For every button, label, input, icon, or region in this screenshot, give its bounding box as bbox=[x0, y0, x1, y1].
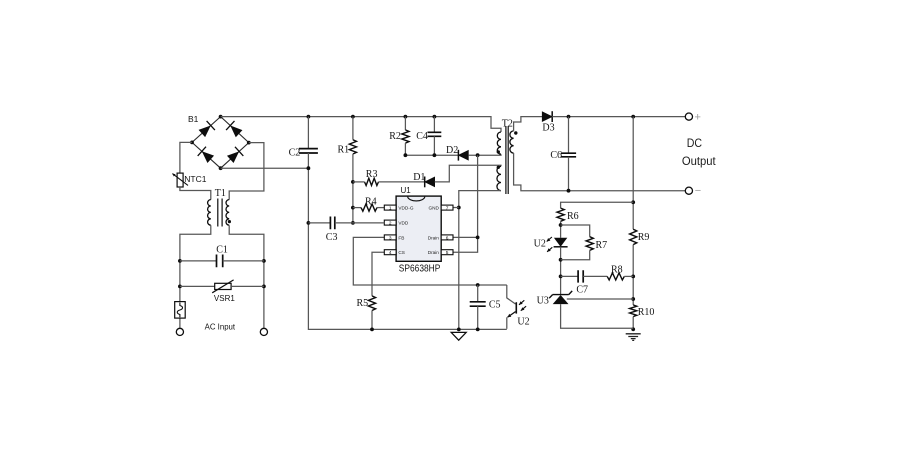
wire drain node down to U1 pins 6 and 5 bbox=[453, 155, 477, 252]
svg-text:D2: D2 bbox=[446, 145, 458, 156]
junction C1 right bbox=[262, 259, 266, 263]
varistor VSR1 bbox=[215, 283, 231, 289]
resistor R8 bbox=[607, 273, 624, 280]
svg-text:R6: R6 bbox=[567, 211, 579, 222]
optocoupler U2 light arrow 2 bbox=[521, 306, 526, 311]
capacitor C5 bbox=[470, 302, 486, 306]
junction C3 right / VDD pin2 bbox=[351, 221, 355, 225]
ground (earth) secondary bbox=[626, 334, 641, 341]
resistor R6 bbox=[557, 208, 564, 221]
svg-text:Drain: Drain bbox=[428, 250, 440, 255]
wire D2 anode to T2 primary bottom bbox=[468, 154, 501, 155]
junction + sense branch bbox=[631, 115, 635, 119]
svg-text:C5: C5 bbox=[489, 299, 501, 310]
fuse F1 bbox=[175, 302, 186, 319]
wire T2 aux bottom to GND net bbox=[459, 191, 501, 330]
wire C3 left lead bbox=[308, 222, 330, 224]
op-amp U1 body (controller SP6638HP) bbox=[396, 196, 441, 261]
wire T2 secondary top to D3 bbox=[514, 117, 543, 131]
wire R2 top lead bbox=[404, 117, 406, 130]
junction C4 top bbox=[433, 115, 437, 119]
junction C7 left / U3 cathode bbox=[559, 275, 563, 279]
junction R7 bottom / LED cathode bbox=[559, 258, 563, 262]
svg-text:T1: T1 bbox=[215, 188, 226, 199]
wire D1 anode to T2 aux winding top bbox=[435, 165, 501, 182]
node bridge left vertex (AC) bbox=[190, 141, 194, 145]
resistor R9 bbox=[630, 229, 637, 244]
wire T1 left winding bottom to AC-L branch bbox=[180, 225, 211, 328]
capacitor C1 bbox=[217, 255, 223, 268]
svg-text:4: 4 bbox=[389, 250, 392, 256]
resistor R3 bbox=[365, 178, 379, 185]
pin 4 box bbox=[384, 250, 396, 255]
node bridge bottom vertex (DC-) bbox=[219, 166, 223, 170]
junction GND net at bottom rail bbox=[457, 328, 461, 332]
wire FB net from pin3 to opto collector bbox=[353, 237, 507, 285]
svg-text:+: + bbox=[695, 111, 701, 123]
pin 5 box bbox=[441, 250, 453, 255]
capacitor C6 bbox=[561, 153, 576, 157]
junction VSR1 right bbox=[262, 285, 266, 289]
wire R1 bottom lead down VDD node bbox=[352, 154, 354, 223]
svg-text:R8: R8 bbox=[611, 265, 623, 276]
wire C6 top lead bbox=[568, 117, 570, 154]
svg-text:1: 1 bbox=[389, 206, 392, 212]
pin 3 box bbox=[384, 235, 396, 240]
wire T2 secondary bottom to - output bbox=[514, 153, 686, 191]
junction C6 top bbox=[567, 115, 571, 119]
svg-text:Drain: Drain bbox=[428, 235, 440, 240]
resistor R2 bbox=[402, 130, 409, 143]
svg-text:R4: R4 bbox=[365, 197, 377, 208]
optocoupler U2 phototransistor bbox=[507, 285, 516, 304]
terminal + output bbox=[685, 113, 692, 120]
wire T1 right winding bottom to AC-N branch bbox=[229, 225, 264, 328]
capacitor C4 bbox=[428, 132, 442, 136]
junction VSR1 left bbox=[178, 285, 182, 289]
wire bridge left vertex to NTC1 bbox=[180, 142, 192, 173]
svg-text:Output: Output bbox=[682, 156, 717, 168]
junction R2 bottom bbox=[404, 153, 408, 157]
wire bridge bottom vertex to C2 bottom bbox=[221, 167, 309, 169]
optocoupler U2 light arrow 1 bbox=[519, 300, 524, 305]
wire + sense vertical to R9 bbox=[632, 117, 634, 230]
wire R1 top lead bbox=[352, 117, 354, 140]
svg-text:7: 7 bbox=[446, 206, 449, 212]
svg-text:U1: U1 bbox=[401, 186, 412, 195]
transformer T1 core bbox=[218, 199, 222, 227]
svg-text:R10: R10 bbox=[638, 307, 655, 318]
polarity dot T2 aux winding (top end) bbox=[497, 166, 500, 169]
svg-text:DC: DC bbox=[687, 138, 702, 150]
junction R7 top bbox=[559, 223, 563, 227]
svg-text:−: − bbox=[695, 185, 701, 197]
wire top DC+ rail from bridge to T2 primary bbox=[221, 117, 501, 132]
svg-text:5: 5 bbox=[446, 250, 449, 256]
optocoupler U2 emitter arrow bbox=[508, 312, 516, 318]
wire D3 cathode to + output bbox=[552, 116, 685, 118]
svg-text:R7: R7 bbox=[596, 240, 608, 251]
transformer T2 primary upper winding bbox=[497, 132, 501, 154]
svg-text:R2: R2 bbox=[389, 131, 401, 142]
svg-text:R3: R3 bbox=[366, 169, 378, 180]
junction C1 left bbox=[178, 259, 182, 263]
svg-text:FB: FB bbox=[398, 235, 404, 240]
pin 2 box bbox=[384, 220, 396, 225]
svg-text:2: 2 bbox=[389, 221, 392, 227]
junction U3 ref / divider tap bbox=[631, 297, 635, 301]
junction GND at pin7 bbox=[457, 206, 461, 210]
pin 7 box bbox=[441, 205, 453, 210]
junction R6 branch bbox=[631, 200, 635, 204]
junction C2 top bbox=[307, 115, 311, 119]
wire C7 to R8 bbox=[583, 275, 607, 277]
wire R2 bottom lead bbox=[404, 143, 406, 155]
svg-text:C3: C3 bbox=[326, 232, 338, 243]
wire R4 left lead bbox=[353, 207, 361, 209]
optocoupler U2 LED emission arrow 2 bbox=[547, 247, 552, 252]
transformer T2 secondary winding bbox=[510, 131, 514, 153]
junction R8 right bbox=[631, 275, 635, 279]
junction R5 bottom on rail bbox=[370, 328, 374, 332]
junction secondary ground bbox=[631, 327, 635, 331]
pin 6 box bbox=[441, 235, 453, 240]
terminal - output bbox=[685, 187, 692, 194]
svg-text:U2: U2 bbox=[517, 317, 529, 328]
shunt regulator U3 (TL431) bbox=[549, 291, 572, 298]
svg-text:C6: C6 bbox=[550, 150, 562, 161]
svg-text:U2: U2 bbox=[534, 238, 546, 249]
svg-text:CS: CS bbox=[398, 250, 405, 255]
svg-text:VDD-G: VDD-G bbox=[398, 206, 413, 211]
wire VDD pin2 stub bbox=[353, 222, 384, 224]
wire C6 bottom lead bbox=[568, 157, 570, 191]
svg-text:AC Input: AC Input bbox=[205, 322, 236, 331]
junction C2 bottom / bridge return bbox=[307, 166, 311, 170]
wire C2 top lead bbox=[307, 117, 309, 149]
junction R1 top bbox=[351, 115, 355, 119]
terminal AC input right bbox=[260, 328, 267, 335]
resistor R7 bbox=[586, 237, 593, 251]
capacitor C7 bbox=[578, 270, 583, 282]
junction R4 branch bbox=[351, 206, 355, 210]
resistor R4 bbox=[361, 204, 377, 211]
svg-text:R5: R5 bbox=[357, 298, 369, 309]
wire + sense to R6 top bbox=[561, 202, 634, 208]
wire R7 branch bottom bbox=[561, 250, 590, 259]
junction pin6 drain bbox=[476, 236, 480, 240]
transformer T1 right winding bbox=[226, 200, 229, 226]
svg-text:C7: C7 bbox=[576, 285, 588, 296]
bridge diode upper-right (conducts R to T) bbox=[226, 121, 243, 138]
wire C4 bottom lead bbox=[433, 136, 435, 155]
svg-text:C2: C2 bbox=[289, 148, 301, 159]
wire R9 bottom to R10 top bbox=[632, 245, 634, 305]
wire R8 right lead bbox=[624, 275, 633, 277]
polarity dot T2 primary upper (bottom end) bbox=[497, 150, 500, 153]
svg-text:D3: D3 bbox=[542, 122, 554, 133]
wire NTC1 to T1 left winding top bbox=[180, 187, 211, 200]
transformer T1 left winding bbox=[208, 200, 211, 226]
junction R2 top bbox=[404, 115, 408, 119]
svg-text:NTC1: NTC1 bbox=[184, 174, 206, 184]
wire VSR1 right lead bbox=[231, 285, 264, 287]
wire C4 top lead bbox=[433, 117, 435, 133]
wire C5 top lead bbox=[477, 285, 479, 302]
svg-text:GND: GND bbox=[428, 206, 439, 211]
junction R1/R3 node bbox=[351, 180, 355, 184]
wire C7 left lead bbox=[561, 275, 579, 277]
diode D2 bbox=[458, 150, 468, 160]
pin 1 box bbox=[384, 205, 396, 210]
svg-text:VDD: VDD bbox=[398, 221, 409, 226]
wire R10 bottom to ground bbox=[632, 317, 634, 330]
transformer T2 core bbox=[506, 126, 508, 194]
wire R6 bottom to LED anode bbox=[560, 221, 562, 238]
diode D3 bbox=[542, 112, 552, 122]
polarity dot T2 secondary (top end) bbox=[514, 131, 517, 134]
wire U3 ref to divider tap bbox=[567, 298, 633, 300]
wire VSR1 left lead bbox=[180, 285, 215, 287]
bridge diode upper-left (conducts L to T) bbox=[198, 121, 215, 138]
node bridge top vertex (DC+) bbox=[219, 115, 223, 119]
wire R4 right lead bbox=[377, 207, 384, 209]
resistor R5 bbox=[368, 296, 375, 311]
junction C3 left on ground vertical bbox=[307, 221, 311, 225]
wire CS pin4 to R5 bbox=[372, 252, 384, 296]
wire C1 right lead bbox=[223, 260, 264, 262]
svg-text:6: 6 bbox=[446, 235, 449, 241]
wire snubber bottom line to D2 cathode bbox=[405, 154, 458, 156]
wire pin7 GND stub bbox=[453, 207, 459, 209]
svg-text:C4: C4 bbox=[416, 131, 428, 142]
bridge diode lower-left (conducts B to L) bbox=[198, 147, 215, 164]
wire R5 bottom lead bbox=[371, 311, 373, 330]
bridge diode lower-right (conducts B to R) bbox=[226, 147, 243, 164]
terminal AC input left bbox=[176, 328, 183, 335]
svg-text:C1: C1 bbox=[216, 245, 228, 256]
wire C3 right lead bbox=[335, 222, 353, 224]
svg-text:SP6638HP: SP6638HP bbox=[399, 264, 441, 275]
svg-text:B1: B1 bbox=[188, 114, 199, 124]
wire bridge right vertex to T1 right winding top bbox=[229, 143, 264, 200]
wire C5 bottom lead bbox=[477, 306, 479, 329]
capacitor C2 bbox=[299, 149, 318, 153]
resistor R1 bbox=[349, 140, 356, 154]
polarity dot T1 right winding (bottom end) bbox=[228, 220, 231, 223]
transformer T2 primary lower (aux) winding bbox=[497, 166, 501, 190]
svg-text:R1: R1 bbox=[338, 145, 350, 156]
wire C1 left lead bbox=[180, 260, 217, 262]
wire R3 left lead bbox=[353, 181, 365, 183]
wire LED cathode down bbox=[560, 247, 562, 295]
wire pin6 stub bbox=[453, 236, 477, 238]
capacitor C3 bbox=[330, 217, 334, 230]
junction C5 top bbox=[476, 283, 480, 287]
wire U3 anode to secondary ground bbox=[561, 304, 634, 328]
junction C4 bottom bbox=[433, 153, 437, 157]
junction C6 bottom bbox=[567, 189, 571, 193]
ground (triangle) primary bbox=[451, 332, 466, 340]
diode D1 bbox=[425, 177, 435, 187]
junction C5 bottom bbox=[476, 328, 480, 332]
wire R7 branch top bbox=[561, 225, 590, 237]
svg-text:U3: U3 bbox=[537, 296, 549, 307]
svg-text:3: 3 bbox=[389, 235, 392, 241]
svg-text:D1: D1 bbox=[413, 172, 425, 183]
svg-text:R9: R9 bbox=[638, 232, 650, 243]
junction drain branch on snubber line bbox=[476, 153, 480, 157]
wire R3 right to D1 cathode bbox=[379, 181, 425, 183]
optocoupler U2 LED bbox=[554, 238, 567, 247]
thermistor NTC1 bbox=[177, 173, 183, 187]
thermistor NTC1 arrow bbox=[172, 174, 188, 186]
optocoupler U2 LED emission arrow 1 bbox=[547, 237, 552, 242]
node bridge right vertex (AC) bbox=[247, 141, 251, 145]
svg-text:VSR1: VSR1 bbox=[214, 294, 235, 303]
svg-text:T2: T2 bbox=[502, 119, 513, 130]
bridge B1 diamond outline bbox=[192, 117, 249, 169]
resistor R10 bbox=[630, 305, 637, 317]
wire primary ground vertical (C2 bottom / C3 / bottom rail) bbox=[308, 153, 506, 329]
